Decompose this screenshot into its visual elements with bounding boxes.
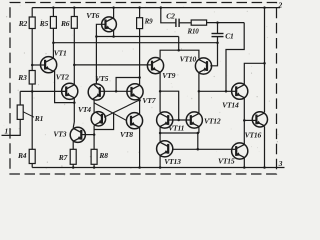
wire VT12 emitter (198, 127, 200, 133)
wire W2 R5-C1 net (53, 42, 217, 44)
transistor VT9 (147, 58, 163, 74)
wire VT1 base (32, 64, 45, 66)
svg-text:VT5: VT5 (95, 74, 108, 83)
node bar left (159, 132, 162, 135)
wire R7 bottom (72, 164, 74, 167)
svg-text:R10: R10 (187, 28, 200, 36)
wire VT8 collector up (139, 100, 141, 114)
wire C2 branch (161, 8, 176, 23)
wire VT11 emitter (159, 127, 161, 133)
transistor VT8 (126, 113, 142, 129)
wire VT6 emitter down (113, 30, 115, 36)
svg-text:VT10: VT10 (180, 55, 197, 64)
node VT13 base junction (197, 148, 200, 151)
wire VT14 base net (199, 90, 236, 92)
wire C1 bottom to VT10 base (210, 37, 217, 66)
wire VT9 base net y65 (74, 64, 152, 66)
transistor VT15 (232, 143, 248, 159)
wire VT13 base tap (197, 133, 199, 149)
svg-text:R9: R9 (144, 18, 153, 26)
transistor VT14 (232, 83, 248, 99)
wire VT10 emitter down (198, 73, 200, 113)
paper speckle texture (4, 5, 279, 176)
wire R10 right (207, 22, 245, 24)
node VT6 rail (112, 6, 115, 9)
wire VT2 emitter down to VT3 (73, 98, 75, 122)
svg-text:VT2: VT2 (56, 73, 69, 82)
wire bottom rail (32, 167, 284, 169)
node VT5/VT7 base junction (115, 90, 118, 93)
wire R2 bottom to VT1 base node (31, 29, 33, 71)
node VT8 emitter rail (138, 166, 141, 169)
transistor VT16 (252, 112, 267, 127)
node VT10 emitter junction (198, 90, 201, 93)
wire VT14 collector (244, 63, 264, 85)
svg-text:2: 2 (278, 1, 283, 10)
wire R3 to R4 (31, 84, 33, 149)
capacitor C1 (212, 33, 224, 35)
wire R5 bottom to VT1 collector (52, 28, 54, 59)
node VT1 base junction (31, 64, 34, 67)
node VT9 base net (73, 64, 76, 67)
wire VT14 emitter to VT15 collector (243, 98, 245, 145)
wire VT16 emitter down (264, 126, 266, 167)
wire X diagonal VT5 emitter to VT8 base (94, 103, 127, 121)
capacitor C2 (175, 19, 177, 27)
svg-text:VT1: VT1 (54, 49, 67, 58)
wire R4 bottom (31, 164, 33, 168)
wire R9 down to VT7 collector (139, 29, 141, 86)
svg-text:R5: R5 (39, 19, 49, 28)
wire right supply column upper (264, 8, 266, 113)
wire input net y91 (20, 90, 66, 92)
node R3/input junction (31, 90, 34, 93)
node VT14 collector/right rail (263, 62, 266, 65)
svg-text:R3: R3 (17, 73, 27, 82)
node VT7 diode junction (138, 76, 141, 79)
svg-text:R1: R1 (34, 114, 43, 123)
wire VT15 emitter (243, 158, 245, 168)
wire R2 top (31, 8, 33, 17)
svg-text:VT4: VT4 (78, 105, 91, 114)
svg-text:VT3: VT3 (53, 130, 66, 139)
svg-text:R7: R7 (58, 153, 68, 162)
wire VT13-VT15 base wire (172, 148, 236, 150)
wire VT3 base wire (81, 134, 94, 136)
node R9 top rail (138, 6, 141, 9)
svg-text:VT16: VT16 (245, 130, 262, 139)
svg-text:3: 3 (278, 159, 283, 168)
svg-text:R8: R8 (98, 151, 108, 160)
node VT3 base / VT4-R8 (93, 133, 96, 136)
svg-text:1: 1 (5, 127, 9, 136)
node R6 top rail (73, 6, 76, 9)
node W1 VT6 emitter (112, 35, 115, 38)
svg-text:R4: R4 (17, 151, 27, 160)
wire R9 top (139, 8, 141, 18)
wire staircase to X (94, 113, 114, 130)
node VT15 emitter rail (243, 166, 246, 169)
wire VT2-VT3 jog (73, 122, 74, 128)
transistor VT4 (91, 112, 105, 126)
resistor R5 (50, 17, 56, 29)
node W3 center tap (177, 49, 180, 52)
resistor R7 (70, 149, 76, 164)
wire R5 top (52, 8, 54, 17)
dashed IC boundary frame (10, 3, 277, 175)
wire W1 VT6 base net (96, 36, 178, 38)
transistor VT13 (157, 141, 173, 157)
wire VT7 emitter down (139, 98, 141, 100)
wire VT1 emitter down (55, 71, 75, 103)
svg-text:VT8: VT8 (120, 130, 133, 139)
wire VT5 base (101, 90, 132, 92)
transistor VT1 (41, 57, 57, 73)
wire R6 bottom to VT2 collector (73, 28, 75, 85)
svg-text:VT13: VT13 (164, 157, 181, 166)
node VT11/12 base tap (177, 119, 180, 122)
wire tap to VT11/12 bases (160, 91, 179, 120)
transistor VT6 (102, 17, 117, 32)
wire VT11/VT12 base join (168, 119, 191, 121)
node VT7 emitter/VT8 collector (138, 99, 141, 102)
wire VT13 emitter (159, 155, 161, 167)
node VT16 base junction (243, 119, 246, 122)
resistor R4 (29, 149, 35, 163)
node C2 rail (160, 6, 163, 9)
svg-text:VT15: VT15 (218, 157, 235, 166)
resistor R8 (91, 149, 97, 164)
wire VT9 emitter down (159, 72, 161, 112)
node VT16 emitter rail (263, 166, 266, 169)
wire feedback loop (226, 23, 244, 92)
resistor R3 (29, 71, 35, 85)
resistor R10 (191, 20, 206, 25)
wire VT4 bottom to R8 (93, 126, 95, 150)
resistor R2 (29, 17, 35, 29)
node bar right (197, 132, 200, 135)
node W2 left end (52, 41, 55, 44)
transistor VT2 (62, 83, 78, 99)
wire VT8 emitter to rail (139, 127, 141, 167)
node VT9 emitter tap (159, 90, 162, 93)
node right rail top (263, 6, 266, 9)
node C1/W2 junction (216, 41, 219, 44)
transistor VT5 (88, 84, 104, 100)
wire emitter bar (160, 132, 199, 134)
resistor R1 (17, 105, 23, 119)
wire C1 top lead (217, 23, 219, 34)
wire W3 mirror collectors (160, 50, 199, 58)
wire VT6 collector to rail (113, 8, 115, 19)
node loop/VT14 base (225, 90, 228, 93)
wire VT5 emitter down to VT4 (93, 100, 95, 113)
svg-text:VT9: VT9 (162, 71, 175, 80)
node W1 left (95, 35, 98, 38)
svg-text:C1: C1 (225, 32, 234, 41)
resistor R9 (137, 18, 143, 29)
wire VT7 diode connection (116, 78, 140, 92)
node R8 rail (93, 166, 96, 169)
transistor VT7 (127, 84, 143, 100)
wire R1 bottom to terminal 1 (2, 119, 21, 135)
wire R6 top (73, 8, 75, 17)
node R10/C1 junction (216, 21, 219, 24)
transistor VT3 (70, 127, 85, 142)
transistor VT10 (195, 58, 211, 74)
svg-text:VT12: VT12 (204, 116, 221, 125)
node VT13 emitter rail (159, 166, 162, 169)
wire top supply rail (32, 7, 280, 9)
wire VT6 base route (96, 24, 105, 84)
svg-text:C2: C2 (166, 12, 175, 21)
wire R1 top (19, 91, 21, 105)
svg-text:R6: R6 (60, 19, 70, 28)
wire C2 to R10 (179, 22, 191, 24)
wire VT13 collector up (159, 133, 161, 142)
resistor R6 (71, 17, 77, 29)
transistor VT12 (186, 112, 202, 128)
wire X diagonal VT4 base to VT7 emitter (104, 100, 140, 117)
wire R8 bottom (93, 164, 95, 167)
node VT1/VT2 emitter junction (73, 101, 76, 104)
svg-text:VT11: VT11 (168, 124, 184, 133)
node R5 top rail (52, 6, 55, 9)
transistor VT11 (157, 112, 173, 128)
wire VT16 base (244, 119, 256, 121)
wire VT3 emitter to R7 (72, 141, 74, 149)
svg-text:VT6: VT6 (86, 11, 99, 20)
label R1 leader line (23, 112, 34, 117)
node R7 rail (72, 166, 75, 169)
svg-text:R2: R2 (18, 19, 28, 28)
svg-text:VT14: VT14 (222, 100, 239, 109)
svg-text:VT7: VT7 (142, 96, 156, 105)
wire mirror link vertical (178, 37, 180, 51)
